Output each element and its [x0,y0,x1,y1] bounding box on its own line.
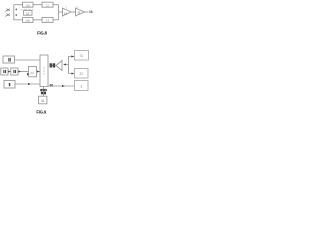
svg-text:FIG.9: FIG.9 [36,109,47,114]
wire 21-to-30 [15,59,41,61]
svg-text:31: 31 [80,54,84,58]
block 40 [39,96,47,104]
wire bottom-mid [33,19,42,21]
wire top-to-bus [53,4,59,6]
wire amp input [59,11,63,13]
wire 23-to-24 [18,71,29,73]
wire top-mid [33,4,42,6]
label in block 23 [13,70,16,73]
block 14 bottom-right [42,18,53,23]
block 31 [75,51,89,61]
block 30 central [40,55,48,87]
svg-text:10a: 10a [25,3,30,7]
arrow on wire 25-30 [28,83,31,85]
arrow 23-out [18,70,21,72]
block 22 [1,68,8,75]
wire bus vertical [13,5,15,20]
block 24 [29,67,37,77]
svg-text:16: 16 [89,10,93,14]
label in block 22 [3,70,6,73]
wire bottom-left [14,19,23,21]
arrow 22-to-23 [8,70,11,72]
block 10 top-left [23,2,34,7]
svg-text:10b: 10b [25,18,30,22]
block 25 [4,81,15,89]
wire output [85,11,89,13]
arrow 24-to-30 [37,70,40,72]
arrow into block 31 [71,55,74,57]
label in block 25 [9,83,11,86]
amplifier A2 [76,8,85,16]
arrow on wire 30-33 [62,85,65,87]
node dot a [16,9,17,11]
amplifier A1 [63,8,72,16]
label 40 above block 40 [40,89,46,94]
wire 30-to-40 [43,87,45,97]
svg-text:14: 14 [64,11,68,15]
block 32 [75,69,89,79]
arrow into block 24 [27,73,30,76]
svg-text:12: 12 [26,11,30,15]
svg-text:1: 1 [80,84,82,88]
svg-text:13: 13 [46,18,50,22]
svg-text:24: 24 [30,71,34,75]
wire drop to 32 [69,65,72,74]
tick labels above block 12 [21,8,34,11]
svg-text:11: 11 [46,3,49,7]
svg-text:30: 30 [50,83,54,87]
wire 25-to-30 [15,83,40,85]
block 13 bottom-left [23,18,34,23]
block 11 top-right [42,2,53,7]
arrow into 32 [72,72,75,74]
wire between amps [71,11,76,13]
wire bottom-to-bus [53,19,59,21]
block 21 [3,56,15,63]
wire top-left [14,4,23,6]
wire join vertical [58,5,60,20]
wire 30-to-33 [48,85,75,87]
wire speaker feed [65,64,69,66]
wire riser to 31 [69,57,75,65]
svg-text:41: 41 [41,99,45,103]
svg-text:32: 32 [79,72,83,76]
block 12 middle [24,10,33,15]
node dot b [16,14,17,16]
svg-text:15: 15 [77,11,81,15]
transducer X1 [5,9,10,12]
arrow into speaker [63,63,66,65]
speaker label 20 [50,63,56,67]
block 23 [11,68,18,75]
svg-text:FIG.8: FIG.8 [37,30,48,35]
transducer X2 [5,14,10,17]
label in block 21 [8,58,11,62]
wire 24-to-30 [37,71,41,73]
speaker flare [56,61,62,71]
block 33 [75,81,89,91]
